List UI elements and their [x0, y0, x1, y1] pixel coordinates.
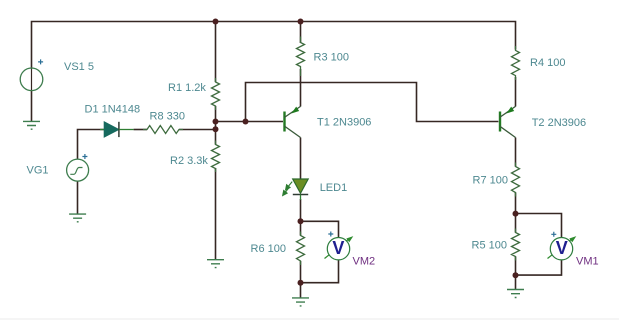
svg-text:T2 2N3906: T2 2N3906: [532, 117, 586, 129]
svg-text:VM2: VM2: [353, 256, 376, 268]
svg-text:VS1 5: VS1 5: [64, 61, 94, 73]
svg-text:VM1: VM1: [576, 256, 599, 268]
svg-text:R4 100: R4 100: [530, 57, 565, 69]
svg-text:V: V: [332, 238, 344, 258]
svg-text:R1 1.2k: R1 1.2k: [168, 82, 206, 94]
svg-text:R6 100: R6 100: [251, 243, 286, 255]
svg-text:V: V: [556, 238, 568, 258]
svg-text:R2 3.3k: R2 3.3k: [170, 155, 208, 167]
svg-text:R3 100: R3 100: [314, 52, 349, 64]
svg-text:R5 100: R5 100: [472, 240, 507, 252]
svg-text:T1 2N3906: T1 2N3906: [317, 117, 371, 129]
svg-text:R7 100: R7 100: [473, 174, 508, 186]
svg-text:R8 330: R8 330: [150, 110, 185, 122]
svg-text:D1 1N4148: D1 1N4148: [85, 104, 141, 116]
svg-text:VG1: VG1: [27, 165, 49, 177]
svg-text:LED1: LED1: [320, 182, 348, 194]
